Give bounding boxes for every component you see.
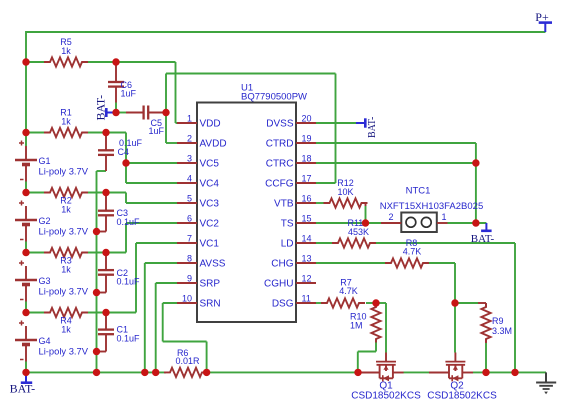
svg-text:BAT-: BAT- — [471, 233, 495, 245]
svg-text:0.1uF: 0.1uF — [117, 217, 141, 227]
svg-text:10K: 10K — [337, 187, 353, 197]
svg-text:CTRC: CTRC — [266, 159, 294, 170]
svg-text:VDD: VDD — [200, 119, 221, 130]
svg-text:CSD18502KCS: CSD18502KCS — [351, 391, 421, 402]
svg-text:4.7K: 4.7K — [339, 286, 358, 296]
svg-text:CTRD: CTRD — [266, 139, 294, 150]
svg-text:2: 2 — [388, 212, 393, 222]
svg-text:DSG: DSG — [272, 299, 294, 310]
svg-text:4: 4 — [187, 174, 192, 184]
svg-text:VC4: VC4 — [200, 179, 220, 190]
svg-text:BAT-: BAT- — [367, 117, 378, 138]
svg-text:SRN: SRN — [200, 299, 221, 310]
svg-text:19: 19 — [302, 134, 312, 144]
svg-text:Li-poly 3.7V: Li-poly 3.7V — [39, 166, 89, 177]
svg-text:0.1uF: 0.1uF — [117, 334, 141, 344]
svg-text:G3: G3 — [39, 276, 51, 286]
svg-text:NXFT15XH103FA2B025: NXFT15XH103FA2B025 — [380, 201, 484, 212]
svg-text:AVSS: AVSS — [200, 259, 226, 270]
svg-text:G4: G4 — [39, 336, 51, 346]
svg-text:18: 18 — [302, 154, 312, 164]
svg-text:12: 12 — [302, 274, 312, 284]
svg-text:VTB: VTB — [274, 199, 294, 210]
svg-text:1k: 1k — [61, 46, 71, 56]
svg-text:DVSS: DVSS — [266, 119, 294, 130]
svg-text:CGHU: CGHU — [264, 279, 293, 290]
svg-text:1k: 1k — [61, 265, 71, 275]
svg-text:TS: TS — [281, 219, 294, 230]
svg-text:10: 10 — [182, 294, 192, 304]
svg-text:4.7K: 4.7K — [403, 247, 422, 257]
svg-text:1: 1 — [442, 212, 447, 222]
svg-text:5: 5 — [187, 194, 192, 204]
svg-text:C4: C4 — [118, 147, 130, 157]
svg-text:1k: 1k — [61, 117, 71, 127]
svg-text:16: 16 — [302, 194, 312, 204]
svg-text:15: 15 — [302, 214, 312, 224]
svg-text:1M: 1M — [350, 321, 363, 331]
svg-text:453K: 453K — [348, 227, 369, 237]
svg-text:1uF: 1uF — [149, 126, 165, 136]
svg-text:14: 14 — [302, 234, 312, 244]
svg-text:LD: LD — [281, 239, 294, 250]
svg-text:1uF: 1uF — [121, 89, 137, 99]
svg-text:Li-poly 3.7V: Li-poly 3.7V — [39, 346, 89, 357]
svg-text:20: 20 — [302, 114, 312, 124]
svg-text:0.01R: 0.01R — [175, 356, 200, 366]
svg-text:G1: G1 — [39, 156, 51, 166]
svg-text:R9: R9 — [492, 316, 504, 326]
svg-text:BQ7790500PW: BQ7790500PW — [241, 92, 307, 103]
svg-text:AVDD: AVDD — [200, 139, 227, 150]
svg-text:3.3M: 3.3M — [492, 326, 512, 336]
svg-text:CSD18502KCS: CSD18502KCS — [427, 391, 497, 402]
svg-text:VC2: VC2 — [200, 219, 220, 230]
svg-text:SRP: SRP — [200, 279, 221, 290]
svg-text:CHG: CHG — [271, 259, 293, 270]
svg-text:1k: 1k — [61, 205, 71, 215]
svg-text:13: 13 — [302, 254, 312, 264]
svg-text:Li-poly 3.7V: Li-poly 3.7V — [39, 226, 89, 237]
svg-text:1: 1 — [187, 114, 192, 124]
svg-text:VC3: VC3 — [200, 199, 220, 210]
svg-text:8: 8 — [187, 254, 192, 264]
svg-text:9: 9 — [187, 274, 192, 284]
svg-text:7: 7 — [187, 234, 192, 244]
svg-text:VC1: VC1 — [200, 239, 220, 250]
svg-text:Li-poly 3.7V: Li-poly 3.7V — [39, 286, 89, 297]
svg-text:0.1uF: 0.1uF — [117, 277, 141, 287]
svg-text:P+: P+ — [535, 10, 549, 24]
svg-text:CCFG: CCFG — [265, 179, 294, 190]
svg-text:VC5: VC5 — [200, 159, 220, 170]
svg-text:2: 2 — [187, 134, 192, 144]
svg-text:17: 17 — [302, 174, 312, 184]
svg-text:6: 6 — [187, 214, 192, 224]
svg-text:3: 3 — [187, 154, 192, 164]
svg-text:11: 11 — [302, 294, 311, 304]
svg-text:BAT-: BAT- — [94, 95, 108, 121]
svg-text:BAT-: BAT- — [10, 382, 36, 396]
svg-text:1k: 1k — [61, 325, 71, 335]
svg-text:G2: G2 — [39, 216, 51, 226]
svg-text:NTC1: NTC1 — [406, 186, 431, 197]
